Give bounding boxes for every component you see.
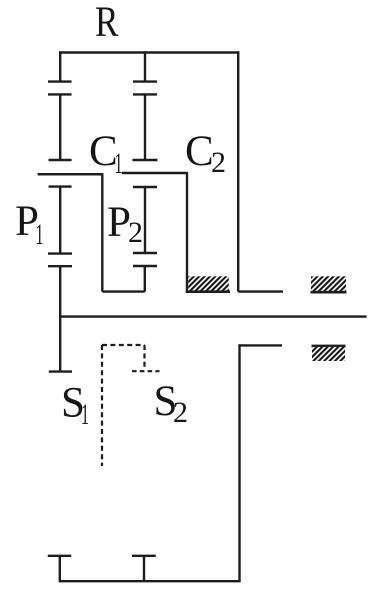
gear mesh P2-S2 upper tick — [133, 252, 157, 254]
wire: planet P2 shaft — [144, 187, 146, 253]
label S1 (sun 1) — [61, 380, 89, 432]
clutch sleeve dashed left vertical — [101, 345, 103, 466]
wire: carrier C1 drop — [101, 174, 103, 291]
wire: carrier C1 U-bottom — [102, 290, 145, 292]
svg-text:C: C — [185, 128, 214, 175]
wire: ring right drop — [237, 51, 239, 291]
wire: middle vertical below mesh — [144, 94, 146, 160]
gear mesh P1-S1 lower tick — [48, 265, 72, 267]
wire: bottom middle stub — [143, 556, 145, 581]
gear mesh P2-S2 lower tick — [133, 265, 157, 267]
wire: output right vertical — [238, 344, 240, 581]
wire: output elbow horizontal — [240, 344, 283, 346]
svg-text:1: 1 — [81, 398, 89, 431]
ground: right lower hatch block — [312, 346, 346, 361]
ground: C2 hatch block — [186, 276, 230, 291]
svg-text:R: R — [95, 0, 119, 46]
ground: right upper hatch block — [311, 276, 347, 292]
gear mesh P1-S1 upper tick — [48, 252, 72, 254]
main shaft line — [60, 315, 367, 317]
label C2 (carrier 2) — [185, 128, 226, 179]
wire: bottom left stub — [59, 556, 61, 581]
wire: left vertical below mesh — [59, 94, 61, 160]
gear mesh R-P2 upper tick — [133, 80, 157, 82]
wire: sun S1 shaft vertical — [59, 266, 61, 371]
wire: ring drop foot — [238, 290, 283, 292]
svg-text:2: 2 — [173, 396, 188, 429]
carrier C1 bar — [38, 173, 104, 176]
label P2 (planet 2) — [107, 199, 143, 249]
label P1 (planet 1) — [15, 198, 44, 251]
ring gear R top bar — [59, 51, 239, 54]
clutch sleeve dashed right vertical — [143, 345, 145, 369]
wire: P2 sun-side riser — [144, 266, 146, 292]
clutch sleeve dashed top — [102, 344, 145, 346]
planet P2 top tick — [133, 186, 157, 188]
svg-text:1: 1 — [36, 218, 44, 251]
svg-text:1: 1 — [115, 147, 123, 180]
bottom input tick middle — [132, 555, 156, 557]
shaft end tick above C2 — [133, 159, 158, 161]
gear mesh R-P2 lower tick — [133, 93, 157, 95]
carrier C2 bar — [122, 172, 188, 175]
gear mesh R-P1 upper tick — [48, 80, 72, 82]
label S2 (sun 2) — [154, 378, 189, 429]
planet P1 top tick — [49, 185, 72, 187]
sun S2 dashed end tick — [132, 370, 160, 372]
svg-text:2: 2 — [128, 216, 143, 249]
wire: ring middle stub — [144, 51, 146, 81]
gear mesh R-P1 lower tick — [48, 93, 72, 95]
wire: planet P1 shaft — [59, 187, 61, 254]
wire: carrier C2 drop — [186, 173, 188, 293]
sun S1 end tick — [49, 370, 72, 372]
wire: bottom bar — [59, 580, 241, 582]
wire: ring left stub — [59, 51, 61, 81]
svg-text:2: 2 — [211, 146, 226, 179]
label C1 (carrier 1) — [89, 128, 123, 180]
shaft end tick above C1 — [49, 159, 72, 161]
svg-text:C: C — [89, 128, 118, 175]
bottom input tick left — [48, 555, 71, 557]
